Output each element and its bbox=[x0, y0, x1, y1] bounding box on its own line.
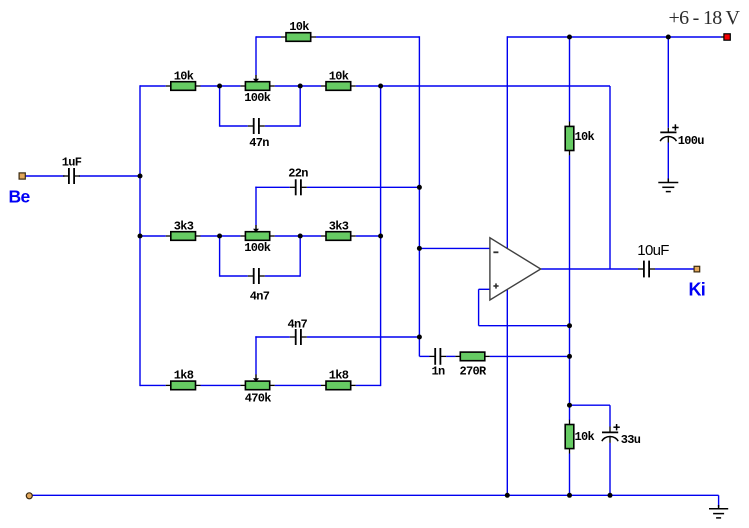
ground below 100u bbox=[658, 179, 678, 192]
wire op-amp plus vertical bbox=[478, 289, 480, 325]
wire pot1 wiper bbox=[255, 36, 257, 75]
svg-text:100k: 100k bbox=[244, 241, 271, 255]
svg-text:270R: 270R bbox=[459, 364, 487, 378]
wire power rail top bbox=[507, 36, 721, 38]
wire 47n bridge stubs bbox=[219, 86, 221, 127]
svg-text:100k: 100k bbox=[244, 91, 271, 105]
wire output row bbox=[541, 268, 638, 270]
wire band3 row segments bbox=[140, 384, 166, 386]
wire 4n7 bridge row band2 bbox=[220, 275, 248, 277]
potentiometer 100k band1 bbox=[240, 75, 274, 105]
capacitor 1n bbox=[430, 348, 447, 378]
wire 47n bridge row bbox=[220, 125, 248, 127]
op-amp U1 bbox=[490, 238, 541, 300]
capacitor 47n band1 bridge bbox=[248, 118, 269, 150]
svg-text:10k: 10k bbox=[329, 69, 349, 83]
svg-text:1k8: 1k8 bbox=[329, 369, 349, 383]
svg-text:10k: 10k bbox=[575, 130, 595, 144]
wire left rail vertical bbox=[139, 85, 141, 386]
wire 4n7 series row band3 bbox=[255, 336, 289, 338]
resistor 3k3 band2 left bbox=[166, 219, 201, 240]
wire right band vertical bbox=[380, 85, 382, 386]
potentiometer 470k band3 bbox=[240, 374, 274, 405]
resistor 10k bias upper bbox=[565, 122, 594, 156]
capacitor 10uF output bbox=[637, 242, 669, 277]
terminal supply +V red bbox=[721, 34, 730, 40]
svg-text:10uF: 10uF bbox=[637, 242, 669, 259]
resistor 1k8 band3 left bbox=[166, 369, 201, 390]
svg-text:100u: 100u bbox=[678, 134, 705, 148]
ground bottom right bbox=[709, 505, 728, 518]
svg-text:Be: Be bbox=[9, 187, 31, 207]
wire band1 row segments bbox=[140, 85, 166, 87]
wire op-amp plus stub bbox=[479, 288, 490, 290]
wire 4n7 bridge stubs band2 bbox=[219, 236, 221, 277]
svg-text:4n7: 4n7 bbox=[287, 317, 307, 331]
potentiometer 100k band2 bbox=[240, 225, 274, 255]
wire input row right bbox=[79, 175, 140, 177]
resistor 10k band1 left bbox=[166, 69, 201, 90]
wire op-amp power vertical x507 bbox=[506, 36, 508, 495]
capacitor 1uF input bbox=[62, 156, 82, 185]
svg-text:4n7: 4n7 bbox=[250, 290, 270, 304]
wire feedback vertical x610 bbox=[609, 86, 611, 269]
wire 100u vertical bbox=[667, 37, 669, 128]
svg-text:10k: 10k bbox=[174, 69, 194, 83]
wire pot3 wiper bbox=[255, 336, 257, 374]
wire bottom rail bbox=[32, 494, 719, 496]
terminal input Be bbox=[19, 173, 25, 179]
resistor 10k band1 right bbox=[321, 69, 356, 90]
wire to right ground bbox=[718, 495, 720, 506]
capacitor 22n band2 series bbox=[288, 166, 308, 195]
capacitor 4n7 band2 bridge bbox=[248, 268, 270, 304]
svg-text:1n: 1n bbox=[431, 364, 445, 378]
capacitor 100u electrolytic bbox=[660, 124, 704, 148]
wire 1n 270R row bbox=[419, 355, 429, 357]
svg-text:3k3: 3k3 bbox=[329, 219, 349, 233]
wire 22n row bbox=[255, 186, 289, 188]
capacitor 33u electrolytic bbox=[602, 424, 641, 447]
wire 33u branch bbox=[570, 404, 611, 406]
wire collector vertical x419 bbox=[418, 36, 420, 356]
svg-text:+6 - 18 V: +6 - 18 V bbox=[669, 7, 741, 29]
resistor 270R bbox=[455, 352, 490, 378]
wire pot2 wiper bbox=[255, 187, 257, 226]
terminal output Ki bbox=[694, 266, 700, 272]
wire bias vertical x569 bbox=[569, 37, 571, 122]
wire input row left bbox=[25, 175, 65, 177]
wire op-amp plus row bbox=[479, 325, 570, 327]
wire band2 row segments bbox=[140, 235, 166, 237]
svg-text:22n: 22n bbox=[288, 166, 308, 180]
svg-text:1uF: 1uF bbox=[62, 156, 82, 170]
resistor 3k3 band2 right bbox=[321, 219, 356, 240]
resistor 10k bias lower bbox=[565, 420, 594, 454]
svg-text:3k3: 3k3 bbox=[174, 219, 194, 233]
svg-text:470k: 470k bbox=[245, 391, 272, 405]
resistor 10k feedback top bbox=[281, 20, 316, 41]
resistor 1k8 band3 right bbox=[321, 369, 356, 390]
svg-text:1k8: 1k8 bbox=[174, 369, 194, 383]
svg-text:47n: 47n bbox=[249, 136, 269, 150]
svg-text:Ki: Ki bbox=[689, 280, 706, 300]
terminal bottom left bbox=[26, 493, 32, 499]
capacitor 4n7 band3 series bbox=[287, 317, 307, 345]
wire op-amp minus input bbox=[419, 247, 490, 249]
svg-text:10k: 10k bbox=[289, 20, 309, 34]
svg-text:10k: 10k bbox=[575, 430, 595, 444]
svg-text:33u: 33u bbox=[621, 433, 641, 447]
wire feedback top row bbox=[256, 36, 281, 38]
